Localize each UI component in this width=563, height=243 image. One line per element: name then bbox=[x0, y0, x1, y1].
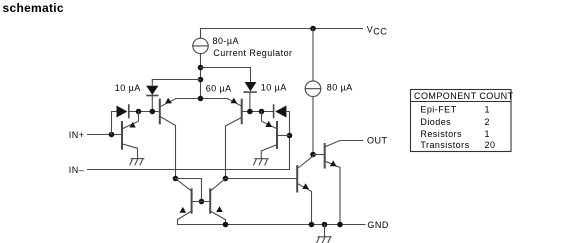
transistor Q1 (IN+ follower) bbox=[122, 112, 139, 159]
transistor Q6 (mirror right) bbox=[210, 179, 225, 225]
wire right base line bbox=[243, 111, 273, 113]
node junction driver collector bbox=[310, 152, 316, 158]
svg-text:Current Regulator: Current Regulator bbox=[213, 48, 292, 58]
ground symbol bottom bbox=[317, 225, 332, 243]
diode D2 input clamp right bbox=[274, 105, 287, 118]
component count table bbox=[411, 90, 512, 152]
label Transistors 20 bbox=[420, 140, 495, 150]
current source I2 80 µA bbox=[305, 81, 321, 97]
transistor Q2 (diff pair left) bbox=[160, 98, 198, 179]
node junction right diode tie bbox=[247, 109, 253, 115]
node junction Q1 emitter tie bbox=[136, 109, 142, 115]
label Epi-FET 1 bbox=[420, 105, 490, 115]
wire mirror base tie bbox=[176, 179, 202, 202]
wire 80-µA branch from VCC rail bbox=[312, 29, 314, 81]
svg-text:Resistors: Resistors bbox=[420, 129, 462, 139]
node junction output emitter bbox=[337, 222, 343, 228]
transistor Q7 (driver) bbox=[297, 156, 313, 224]
svg-text:CC: CC bbox=[373, 26, 387, 36]
wire IN+ input bbox=[88, 134, 122, 136]
label VCC bbox=[367, 24, 387, 36]
wire right diode to base line bbox=[249, 92, 251, 111]
diode D4 right 10-µA bbox=[244, 82, 256, 92]
wire left base line bbox=[130, 111, 159, 113]
diode D3 left 10-µA bbox=[146, 86, 158, 96]
svg-text:V: V bbox=[367, 24, 373, 34]
transistor Q5 (mirror left) bbox=[176, 179, 210, 225]
wire VCC rail bbox=[201, 28, 363, 30]
node junction Q4 emitter tie bbox=[259, 109, 265, 115]
wire stub to right 10-µA diode bbox=[201, 68, 251, 83]
svg-text:schematic: schematic bbox=[3, 1, 64, 15]
transistor Q4 (IN- follower) bbox=[261, 112, 289, 159]
wire mirror to driver base bbox=[226, 178, 297, 180]
node 60-µA tail junction bbox=[198, 96, 204, 102]
svg-text:2: 2 bbox=[485, 117, 490, 127]
svg-text:COMPONENT COUNT: COMPONENT COUNT bbox=[414, 91, 514, 101]
node VCC branch junction bbox=[310, 26, 316, 32]
svg-text:Diodes: Diodes bbox=[420, 117, 451, 127]
ground symbol left bbox=[130, 159, 144, 165]
svg-text:1: 1 bbox=[485, 105, 490, 115]
svg-text:Transistors: Transistors bbox=[420, 140, 469, 150]
svg-text:GND: GND bbox=[367, 220, 389, 230]
svg-text:OUT: OUT bbox=[367, 135, 388, 145]
wire IN+ up to clamp diode bbox=[112, 112, 117, 135]
label Resistors 1 bbox=[420, 129, 490, 139]
wire left diode to base line bbox=[151, 96, 153, 112]
svg-text:80 µA: 80 µA bbox=[327, 82, 353, 92]
node IN+ junction bbox=[109, 132, 115, 138]
node junction left stub bbox=[198, 77, 204, 83]
wire right base to IN- rail bbox=[286, 112, 289, 170]
node junction ground stem bbox=[322, 222, 328, 228]
svg-text:IN+: IN+ bbox=[69, 130, 85, 140]
transistor Q8 (output) bbox=[313, 141, 363, 225]
node junction mirror right emitter bbox=[223, 222, 229, 228]
node junction mirror bases bbox=[199, 199, 205, 205]
wire current regulator output down to 60-µA node bbox=[200, 54, 202, 99]
node junction mirror right bbox=[223, 176, 229, 182]
transistor Q3 (diff pair right) bbox=[203, 98, 241, 179]
wire from VCC rail down to current regulator bbox=[200, 29, 202, 39]
svg-text:60 µA: 60 µA bbox=[206, 83, 232, 93]
ground symbol right bbox=[254, 159, 269, 165]
wire 80-µA source to driver collector node bbox=[312, 97, 314, 155]
wire GND rail bbox=[178, 224, 366, 226]
node junction driver emitter bbox=[309, 222, 315, 228]
svg-text:IN–: IN– bbox=[69, 165, 85, 175]
node junction mirror left bbox=[173, 176, 179, 182]
wire stub to left 10-µA diode bbox=[152, 80, 200, 86]
node junction right stub bbox=[198, 65, 204, 71]
svg-text:80-µA: 80-µA bbox=[213, 36, 239, 46]
diode D1 input clamp left bbox=[117, 105, 129, 118]
svg-text:1: 1 bbox=[485, 129, 490, 139]
svg-text:10 µA: 10 µA bbox=[115, 83, 141, 93]
svg-text:Epi-FET: Epi-FET bbox=[420, 105, 456, 115]
node junction left diode tie bbox=[150, 109, 156, 115]
svg-text:20: 20 bbox=[485, 140, 496, 150]
label Diodes 2 bbox=[420, 117, 490, 127]
svg-text:10 µA: 10 µA bbox=[261, 82, 287, 92]
node junction Q4 base bbox=[287, 133, 293, 139]
wire IN- input bbox=[88, 169, 290, 171]
current source U1 80-µA current regulator bbox=[193, 38, 208, 53]
